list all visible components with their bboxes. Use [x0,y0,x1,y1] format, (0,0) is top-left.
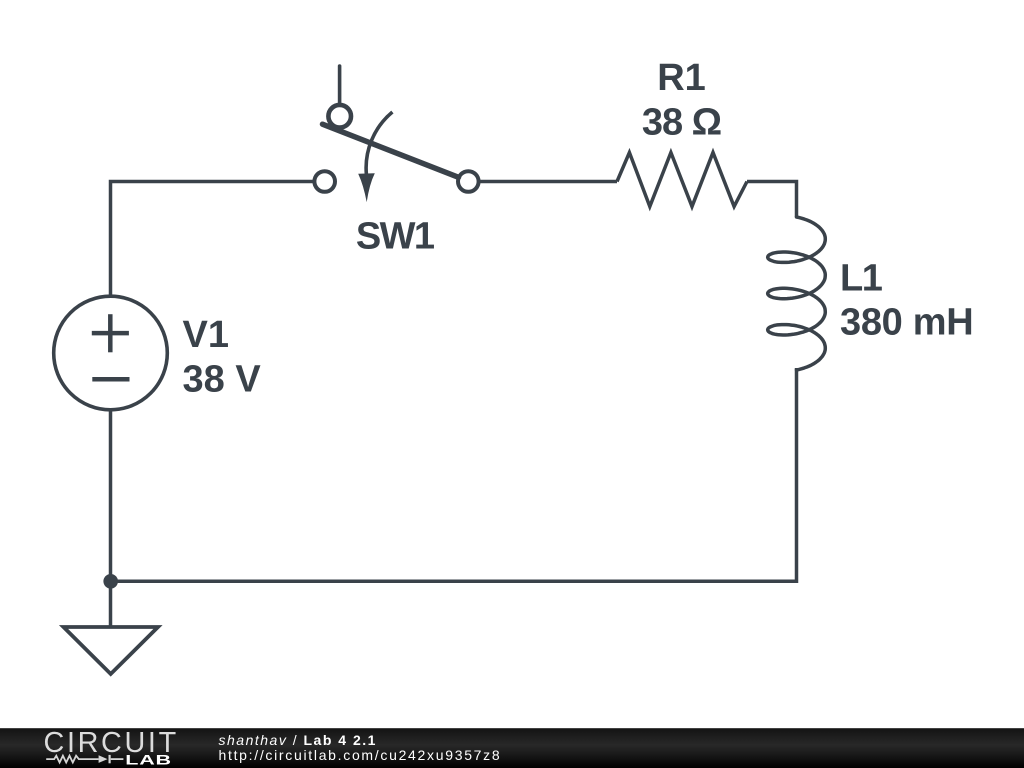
svg-text:LAB: LAB [125,752,172,767]
wire [747,182,797,218]
svg-text:SW1: SW1 [356,216,435,258]
logo resistor squiggle [46,756,98,763]
svg-text:http://circuitlab.com/cu242xu9: http://circuitlab.com/cu242xu9357z8 [219,747,502,763]
switch SW1 [314,66,478,192]
wire [111,368,797,581]
svg-text:38 V: 38 V [183,359,262,401]
svg-text:380 mH: 380 mH [840,302,973,344]
svg-text:R1: R1 [657,57,706,99]
wire [481,180,618,184]
resistor R1 [617,153,747,207]
SW1 pivot terminal [328,105,351,128]
svg-text:L1: L1 [840,258,883,300]
svg-text:V1: V1 [183,314,229,356]
svg-text:shanthav / Lab 4 2.1: shanthav / Lab 4 2.1 [219,732,377,748]
ground [64,627,159,674]
node junction [103,574,118,589]
footer bar [0,728,1024,768]
SW1 actuator arc [366,112,392,175]
V1 plus sign [92,314,130,379]
logo diode [99,755,108,763]
wire [109,410,113,627]
V1 minus sign [92,377,129,382]
svg-text:38 Ω: 38 Ω [642,102,721,144]
logo diode cathode bar [108,755,110,763]
wire [111,182,314,298]
logo lead [111,758,124,760]
SW1 right terminal [458,171,479,192]
SW1 left terminal [314,171,335,192]
SW1 blade [323,124,459,177]
voltage source V1 [54,296,168,410]
wire stub [338,66,342,104]
SW1 arrowhead [358,173,375,202]
inductor L1 [768,217,826,370]
